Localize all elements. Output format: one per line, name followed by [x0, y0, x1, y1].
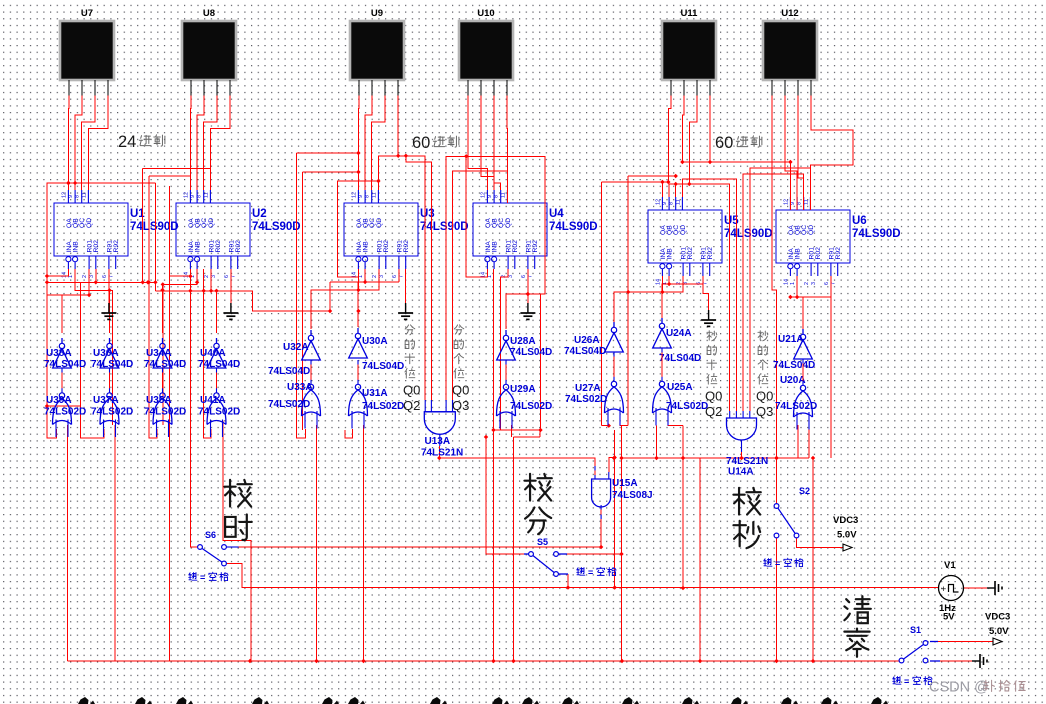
svg-text:1: 1: [790, 282, 796, 285]
wire U8 pin1 to U2: [189, 96, 192, 191]
wire U1 R91 to ground: [108, 269, 110, 303]
NOR gate U39A 74LS02D: [44, 393, 86, 437]
NOR gate U29A 74LS02D: [497, 384, 553, 429]
wire U5 INA stub top: [661, 182, 663, 197]
wire x155.4 drop: [154, 183, 156, 291]
svg-text:9: 9: [487, 195, 493, 198]
node label miao-de-shi-wei column: [707, 331, 717, 384]
svg-text:QD: QD: [208, 218, 215, 228]
svg-text:Q0: Q0: [756, 389, 773, 404]
svg-text:VDC3: VDC3: [985, 612, 1010, 623]
wire x813 drop: [812, 458, 814, 661]
gate chain links seconds: [614, 348, 803, 385]
inverter U21A 74LS04D: [773, 329, 815, 371]
wire U3 R92 to ground: [405, 269, 407, 303]
svg-text:5.0V: 5.0V: [837, 530, 857, 541]
wire h282 U3: [330, 281, 399, 283]
wire S5 feed: [486, 437, 524, 554]
svg-text:74LS02D: 74LS02D: [91, 407, 133, 418]
svg-text:Q0: Q0: [452, 383, 469, 398]
svg-text:11: 11: [203, 192, 209, 198]
wire U7 pin3 to U1: [82, 96, 95, 191]
wire S6 lower to y588: [227, 564, 939, 588]
wire U5 INA stub: [661, 276, 663, 292]
svg-text:74LS02D: 74LS02D: [775, 401, 817, 412]
svg-text:74LS04D: 74LS04D: [144, 359, 186, 370]
wire bottom bus: [68, 660, 900, 662]
AND gate U13A 74LS21N: [421, 412, 463, 459]
wire U8 pin3 to U2: [204, 96, 217, 191]
svg-text:9: 9: [190, 195, 196, 198]
svg-text:14: 14: [783, 279, 789, 285]
S1 stubs: [930, 642, 993, 662]
svg-text:U10: U10: [477, 8, 494, 19]
counter IC U1 74LS90D: [54, 190, 179, 278]
wire h176 U5: [628, 175, 676, 177]
wire h182: [601, 181, 668, 183]
wire U13A in2 up: [406, 156, 432, 400]
svg-text:3: 3: [211, 275, 217, 278]
ground under U2: [223, 303, 238, 319]
svg-text:R02: R02: [687, 247, 694, 260]
svg-text:INB: INB: [195, 241, 202, 253]
svg-text:U30A: U30A: [362, 336, 388, 347]
AND gate U15A 74LS08J: [592, 478, 653, 507]
wire h168.6 to U2 QD: [143, 169, 211, 190]
wire U32A out to U3 R01: [311, 269, 379, 329]
svg-text:R02: R02: [512, 240, 519, 253]
wire U5 QB stub: [668, 184, 670, 197]
svg-text:7: 7: [703, 282, 709, 285]
wire U6 h297 seg: [790, 296, 803, 298]
wire h153 U3: [296, 152, 358, 154]
svg-text:U40A: U40A: [200, 348, 226, 359]
svg-text:12: 12: [61, 192, 67, 198]
svg-text:74LS04D: 74LS04D: [510, 347, 552, 358]
svg-text:R92: R92: [835, 247, 842, 260]
svg-text:2: 2: [204, 275, 210, 278]
seven-segment display U8: [182, 8, 236, 96]
wire junctions: [45, 151, 815, 663]
svg-text:2: 2: [372, 275, 378, 278]
inverter U26A 74LS04D: [564, 322, 623, 357]
inverter U38A 74LS04D: [44, 338, 86, 370]
wire U20A in1 drop: [797, 425, 799, 458]
wire U14A out: [741, 452, 743, 458]
wire S5 lower drop: [567, 574, 569, 588]
svg-text:74LS21N: 74LS21N: [726, 456, 768, 467]
label qing-ling (clear): [844, 596, 870, 657]
label 24 jinzhi: [118, 133, 165, 151]
counter IC U2 74LS90D: [176, 190, 301, 278]
wire h430: [494, 430, 541, 437]
svg-text:2: 2: [82, 275, 88, 278]
svg-text:6: 6: [824, 282, 830, 285]
wire U1 R02 stub: [95, 269, 97, 282]
svg-text:74LS02D: 74LS02D: [44, 407, 86, 418]
wire U14A in2 up: [682, 179, 736, 411]
wire U8 pin2 to U2: [197, 96, 204, 191]
wire x700 drop: [699, 458, 701, 661]
wire U7 pin1 to U1: [67, 96, 70, 191]
wire trunk y458 B: [622, 457, 809, 459]
svg-text:U8: U8: [203, 8, 215, 19]
wire U28A out snake: [506, 156, 545, 329]
NOR gate U33A 74LS02D: [268, 382, 321, 429]
svg-text:8: 8: [494, 195, 500, 198]
svg-text:8: 8: [669, 202, 675, 205]
svg-text:U29A: U29A: [510, 384, 536, 395]
seven-segment display U11: [662, 8, 716, 96]
svg-text:2: 2: [804, 282, 810, 285]
svg-text:Q2: Q2: [705, 404, 722, 419]
svg-text:74LS02D: 74LS02D: [510, 401, 552, 412]
svg-text:U2: U2: [252, 208, 267, 220]
wire U12 pin1 to S2: [772, 96, 777, 505]
svg-text:8: 8: [75, 195, 81, 198]
svg-text:74LS04D: 74LS04D: [773, 360, 815, 371]
wire U26A out to U5 R01: [614, 276, 683, 325]
wire U12 pin4 loop: [810, 96, 853, 211]
inverter U24A 74LS04D: [653, 318, 702, 364]
svg-text:U5: U5: [724, 215, 739, 227]
svg-text:=: =: [904, 677, 909, 687]
wire U1 INB jog: [75, 269, 113, 425]
wire U11 pin4: [709, 96, 711, 163]
svg-text:11: 11: [500, 192, 506, 198]
svg-text:INB: INB: [492, 241, 499, 253]
wire U40A out up: [216, 291, 218, 333]
svg-text:R92: R92: [707, 247, 714, 260]
node label fen-de-ge-wei column: [454, 325, 464, 378]
svg-text:7: 7: [399, 275, 405, 278]
svg-text:+: +: [941, 584, 946, 594]
wire U3 INA wrap: [338, 181, 379, 277]
seven-segment display U10: [459, 8, 513, 96]
wire U36A out up: [109, 290, 111, 333]
wire trunk y458 A: [439, 458, 595, 466]
inverter U40A 74LS04D: [198, 338, 240, 370]
wire x190 S6 feed: [190, 276, 197, 547]
svg-text:U13A: U13A: [425, 436, 451, 447]
svg-text:9: 9: [68, 195, 74, 198]
wire U4 R91 stub: [527, 269, 529, 294]
wire v330: [329, 282, 331, 311]
wire U6 INB stub: [796, 276, 798, 297]
wire U33A in2 drop: [316, 425, 318, 661]
wire U27A in1 link: [601, 425, 608, 427]
svg-text:74LS02D: 74LS02D: [362, 401, 404, 412]
NOR gate U31A 74LS02D: [349, 384, 405, 428]
svg-text:INB: INB: [73, 241, 80, 253]
svg-text:74LS90D: 74LS90D: [724, 228, 773, 240]
wire U34A out up: [162, 284, 164, 333]
wire carry snake2: [155, 291, 330, 311]
wire U6 R91 drop: [830, 276, 832, 458]
label xiao-shi (set hour): [224, 480, 251, 540]
wire U12 pin2: [785, 96, 797, 211]
wire U5 INB stub: [668, 276, 670, 284]
svg-text:U12: U12: [781, 8, 798, 19]
svg-text:6: 6: [392, 275, 398, 278]
svg-text:U27A: U27A: [575, 383, 601, 394]
inverter U30A 74LS04D: [349, 328, 405, 372]
svg-text:14: 14: [183, 272, 189, 278]
wire U3 INA stub: [357, 269, 359, 290]
wire v142.7 drop: [142, 169, 144, 283]
svg-text:R92: R92: [532, 240, 539, 253]
wire U10 pin4 to U4: [506, 96, 508, 191]
counter IC U5 74LS90D: [648, 197, 773, 285]
counter IC U3 74LS90D: [344, 190, 469, 278]
svg-text:5V: 5V: [943, 612, 955, 623]
wire U7 pin2 to U1: [75, 96, 82, 191]
wire v621 drop: [621, 426, 623, 661]
wire U12 pin3: [798, 96, 804, 211]
wire v80.5: [81, 282, 105, 438]
svg-text:74LS04D: 74LS04D: [659, 353, 701, 364]
wire U15A in2 up: [609, 458, 615, 473]
svg-text:R02: R02: [815, 247, 822, 260]
svg-text:INB: INB: [667, 248, 674, 260]
wire S6 upper line y548: [239, 546, 601, 548]
svg-text:S2: S2: [799, 486, 810, 496]
wire x169.5 long: [169, 186, 171, 661]
svg-text:QD: QD: [680, 225, 687, 235]
S5 lead stubs: [524, 554, 568, 574]
wire U25A in2 link: [668, 425, 684, 427]
svg-text:74LS02D: 74LS02D: [268, 399, 310, 410]
wire U31A in1 feed: [345, 429, 353, 438]
wire U3 R91 stub: [398, 269, 400, 282]
node Q0 Q2 minutes tens: [403, 383, 420, 414]
svg-text:QD: QD: [808, 225, 815, 235]
svg-text:U14A: U14A: [728, 467, 754, 478]
svg-text:74LS02D: 74LS02D: [666, 401, 708, 412]
seven-segment display U7: [60, 8, 114, 96]
NOR gate U25A 74LS02D: [653, 381, 709, 425]
node label miao-de-ge-wei column: [758, 331, 768, 384]
svg-text:INB: INB: [795, 248, 802, 260]
svg-text:U41A: U41A: [200, 395, 226, 406]
svg-text:U21A: U21A: [778, 334, 804, 345]
wire S2 left contact drop: [776, 538, 778, 661]
svg-text:8: 8: [365, 195, 371, 198]
svg-text:U11: U11: [681, 8, 699, 19]
wire U15A out down: [600, 519, 602, 547]
svg-text:12: 12: [351, 192, 357, 198]
wire left loop vertical: [47, 183, 155, 438]
ground under U1: [101, 303, 116, 319]
svg-text:11: 11: [81, 192, 87, 198]
ground under U5: [701, 310, 716, 326]
svg-text:Q0: Q0: [705, 389, 722, 404]
wire U2 INA stub: [170, 269, 191, 276]
wire U24A out to U5 R91: [662, 276, 703, 321]
svg-text:74LS90D: 74LS90D: [130, 221, 179, 233]
S6 upper stub: [226, 546, 238, 548]
svg-text:S5: S5: [537, 537, 548, 547]
svg-text:3: 3: [379, 275, 385, 278]
svg-text:U38A: U38A: [46, 348, 72, 359]
svg-text:CSDN @: CSDN @: [929, 680, 989, 696]
svg-text:U6: U6: [852, 215, 867, 227]
counter IC U6 74LS90D: [776, 197, 901, 285]
wire v302 drop: [302, 172, 304, 430]
wire U5 QC stub: [675, 184, 677, 197]
wire V1 right: [963, 587, 991, 589]
svg-text:74LS04D: 74LS04D: [564, 346, 606, 357]
svg-text:74LS90D: 74LS90D: [420, 221, 469, 233]
svg-text:U15A: U15A: [612, 478, 638, 489]
svg-text:U20A: U20A: [780, 375, 806, 386]
wire h172 U3: [303, 171, 359, 173]
svg-text:U26A: U26A: [574, 335, 600, 346]
label 60 jinzhi minutes: [412, 134, 459, 152]
svg-text:12: 12: [480, 192, 486, 198]
svg-text:74LS04D: 74LS04D: [362, 361, 404, 372]
svg-text:U28A: U28A: [510, 336, 536, 347]
svg-text:6: 6: [521, 275, 527, 278]
wire U13A in3 up: [446, 156, 507, 400]
wire U14A in3 up: [743, 174, 804, 411]
svg-text:Q3: Q3: [756, 404, 773, 419]
wire U9 pin1 to U3: [357, 96, 360, 191]
svg-text:74LS02D: 74LS02D: [144, 407, 186, 418]
wire S2 out: [797, 538, 844, 548]
AND gate U14A 74LS21N: [726, 418, 768, 478]
U14A input stubs: [730, 411, 750, 452]
NOR gate U41A 74LS02D: [198, 393, 240, 437]
seven-segment display U12: [763, 8, 817, 96]
wire v628 drop: [627, 176, 629, 426]
svg-text:V1: V1: [944, 560, 956, 571]
svg-text:7: 7: [528, 275, 534, 278]
wire U38A out to U1 R01: [61, 295, 63, 333]
wire U37A in2 drop: [114, 425, 116, 661]
svg-text:3: 3: [811, 282, 817, 285]
wire U9 pin2 to U3: [365, 96, 372, 191]
wire x601 long drop: [600, 182, 602, 426]
ground under U3: [398, 303, 413, 319]
label xiao-fen (set minute): [524, 474, 551, 534]
svg-text:8: 8: [197, 195, 203, 198]
wire U2 R91 to ground: [230, 269, 232, 303]
svg-text:1: 1: [487, 275, 493, 278]
svg-text:QD: QD: [376, 218, 383, 228]
svg-text:Q0: Q0: [403, 383, 420, 398]
svg-text:7: 7: [109, 275, 115, 278]
VDC3 5.0V connector: [985, 612, 1010, 646]
inverter U36A 74LS04D: [91, 338, 133, 370]
svg-text:12: 12: [655, 199, 661, 205]
wire x614 trunk drop: [614, 430, 616, 588]
wire U2 INB jog: [163, 269, 197, 425]
wire carry snake U1-U2-U3: [47, 281, 155, 283]
svg-text:R02: R02: [93, 240, 100, 253]
node Q0 Q2 seconds tens: [705, 389, 722, 420]
wire U13A in1 up: [378, 156, 425, 400]
svg-text:U35A: U35A: [146, 395, 172, 406]
label 60 jinzhi seconds: [715, 134, 762, 152]
U15A input stubs: [595, 466, 609, 519]
svg-text:7: 7: [831, 282, 837, 285]
wire U11 pin3: [689, 96, 697, 185]
wire U4 INB drop long: [493, 269, 495, 661]
cropped text row at bottom edge: [78, 697, 888, 704]
wire U4 R91 to ground: [527, 269, 529, 303]
ground symbol bottom right: [972, 654, 987, 668]
svg-text:=: =: [775, 559, 780, 569]
wire h295: [47, 269, 89, 295]
wire U13A out to trunk: [438, 446, 440, 458]
svg-text:74LS04D: 74LS04D: [198, 359, 240, 370]
svg-text:R92: R92: [403, 240, 410, 253]
svg-text:U4: U4: [549, 208, 564, 220]
svg-text:R02: R02: [215, 240, 222, 253]
wire U5 QD to U6 INA: [682, 162, 790, 210]
svg-text:12: 12: [783, 199, 789, 205]
svg-text:7: 7: [231, 275, 237, 278]
counter IC U4 74LS90D: [473, 190, 598, 278]
svg-text:9: 9: [358, 195, 364, 198]
svg-text:12: 12: [183, 192, 189, 198]
NOR gate U37A 74LS02D: [91, 393, 133, 437]
switch S5 SPDT: [529, 537, 617, 578]
gate chain links left: [62, 368, 217, 393]
wire U10 pin3: [494, 96, 501, 191]
switch S6 SPDT: [189, 530, 228, 583]
svg-text:S6: S6: [205, 530, 216, 540]
svg-text:U39A: U39A: [46, 395, 72, 406]
wire U29A in2 drop: [511, 425, 513, 437]
svg-text:=: =: [200, 573, 205, 583]
svg-text:U3: U3: [420, 208, 435, 220]
wire U4 R01 to U29A: [501, 269, 509, 430]
wire U1 INA stub: [47, 269, 68, 276]
wire U27A in2 link: [620, 425, 629, 427]
svg-text:74LS02D: 74LS02D: [565, 394, 607, 405]
svg-text:3: 3: [508, 275, 514, 278]
node Q0 Q3 minutes units: [452, 383, 469, 414]
svg-text:INB: INB: [363, 241, 370, 253]
wire U9 pin3 to U3: [372, 96, 385, 191]
wire S5 upper out y554: [567, 553, 622, 555]
svg-text:9: 9: [790, 202, 796, 205]
svg-text:Q2: Q2: [403, 398, 420, 413]
svg-text:14: 14: [61, 272, 67, 278]
inverter U34A 74LS04D: [144, 338, 186, 370]
wire U4 INA feed up: [466, 156, 487, 277]
wire U13A in4 up: [453, 171, 508, 400]
wire U31A in2 drop: [363, 425, 365, 661]
wire U11 pin2: [682, 96, 684, 163]
svg-text:74LS02D: 74LS02D: [198, 407, 240, 418]
ground under U4: [520, 303, 535, 319]
wire x512 drop: [513, 437, 515, 661]
svg-text:U24A: U24A: [666, 328, 692, 339]
wire U7 pin4 to U1: [88, 96, 108, 191]
wire U25A in1 drop: [656, 426, 658, 458]
wire h437: [514, 436, 541, 438]
svg-text:U31A: U31A: [362, 388, 388, 399]
svg-text:6: 6: [224, 275, 230, 278]
svg-text:U32A: U32A: [283, 342, 309, 353]
svg-text:1: 1: [358, 275, 364, 278]
svg-text:74LS08J: 74LS08J: [612, 490, 653, 501]
inverter U28A 74LS04D: [497, 330, 553, 360]
clock source V1: [939, 560, 964, 623]
